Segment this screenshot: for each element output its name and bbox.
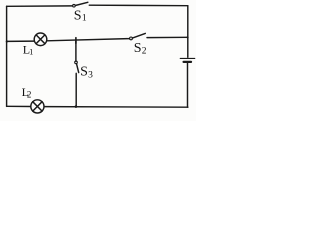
svg-text:2: 2 (142, 46, 147, 56)
wire bottom right segment (44, 106, 188, 109)
node right-border junction (187, 36, 189, 38)
wire left border (6, 6, 8, 106)
switch S3 lever (77, 64, 79, 73)
lamp L2 circle (31, 100, 44, 113)
label L1 (23, 42, 34, 56)
node A junction tick (75, 38, 77, 44)
wire middle left segment (7, 40, 34, 42)
switch S2 lever (132, 33, 145, 38)
switch S3 contact dot (75, 61, 78, 64)
label S1 (74, 9, 87, 24)
svg-text:S: S (80, 65, 88, 80)
svg-text:1: 1 (29, 47, 33, 57)
svg-text:1: 1 (82, 14, 87, 24)
label S2 (134, 41, 147, 56)
label S3 (80, 65, 93, 81)
battery long plate (+) (180, 57, 195, 59)
wire bottom left segment (7, 105, 31, 107)
paper background (0, 0, 196, 121)
wire right border upper (187, 6, 189, 58)
svg-text:S: S (74, 9, 82, 24)
wire middle center segment (47, 39, 130, 41)
wire middle right segment (147, 36, 188, 38)
wire S3 branch upper (75, 41, 77, 61)
wire right border lower (187, 63, 189, 107)
node B junction blob (75, 105, 78, 108)
battery short plate (-) (184, 61, 191, 63)
wire S3 branch lower (75, 73, 77, 106)
switch S2 contact dot (130, 37, 133, 40)
svg-text:S: S (134, 41, 142, 56)
node left-border junction (6, 40, 8, 42)
lamp L2 cross (33, 102, 42, 111)
svg-text:3: 3 (88, 70, 93, 80)
lamp L1 cross (36, 35, 45, 44)
switch S1 lever (75, 2, 88, 5)
wire top-right segment (89, 4, 188, 7)
label L2 (22, 85, 32, 100)
wire top-left segment (7, 5, 73, 7)
lamp L1 circle (34, 33, 47, 46)
switch S1 contact dot (73, 4, 76, 7)
svg-text:2: 2 (27, 90, 32, 100)
